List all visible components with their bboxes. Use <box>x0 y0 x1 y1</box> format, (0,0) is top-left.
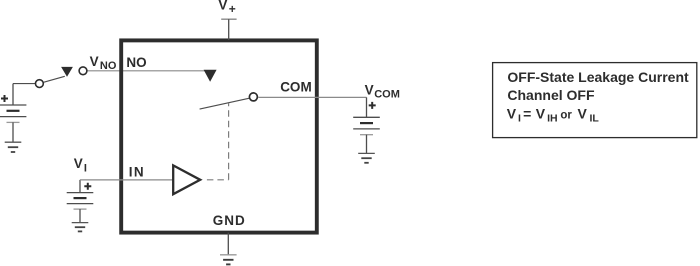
svg-text:COM: COM <box>374 89 400 101</box>
svg-text:V: V <box>365 82 374 97</box>
analog switch COM circle <box>249 93 257 101</box>
svg-text:V: V <box>90 54 99 69</box>
wire: battery B1 positive stem up <box>12 84 14 105</box>
ground: battery B3 <box>72 223 89 232</box>
svg-text:COM: COM <box>280 80 312 95</box>
switch S1 throw circle (node VNO) <box>79 67 87 75</box>
svg-text:NO: NO <box>126 55 146 70</box>
dashed control line vertical <box>228 103 230 180</box>
battery B1 (VNO source) <box>0 95 26 142</box>
buffer driver A1 <box>173 165 200 194</box>
note text line 3 <box>507 105 600 124</box>
dashed control line horizontal <box>207 179 229 181</box>
label VNO <box>90 54 117 72</box>
wire: node VI to IN pin and buffer input <box>80 179 173 181</box>
svg-text:IL: IL <box>590 113 600 125</box>
wire: B1 to switch S1 pole <box>13 83 36 85</box>
svg-text:+: + <box>229 2 236 16</box>
ground: GND pin <box>220 255 237 265</box>
svg-text:V: V <box>74 156 83 171</box>
ground: battery B1 <box>5 142 22 152</box>
svg-text:or: or <box>560 110 572 122</box>
ground: battery B2 <box>358 153 375 162</box>
wire: battery B3 stem up to IN wire <box>79 180 81 192</box>
svg-text:V: V <box>218 0 227 12</box>
svg-text:I: I <box>84 162 87 174</box>
wire: V+ to box top <box>228 19 230 40</box>
svg-text:IH: IH <box>547 113 558 125</box>
label VCOM <box>365 82 400 100</box>
switch S1 lever <box>44 76 65 82</box>
svg-text:V: V <box>578 105 588 121</box>
svg-text:NO: NO <box>100 60 117 72</box>
svg-text:Channel OFF: Channel OFF <box>507 87 595 103</box>
svg-text:GND: GND <box>213 213 246 228</box>
switch S1 arrow contact <box>61 67 73 77</box>
switch S1 pole circle <box>36 80 44 88</box>
svg-text:V: V <box>507 105 517 121</box>
wire: COM pin to node VCOM <box>258 96 366 98</box>
DUT box U1 <box>121 40 317 232</box>
svg-text:I: I <box>518 113 521 125</box>
wire: node VCOM down to battery B2 <box>366 97 368 117</box>
analog switch lever <box>200 98 250 109</box>
wire: GND pin to ground <box>227 233 229 255</box>
svg-text:V: V <box>536 105 546 121</box>
terminal bar V+ <box>221 18 236 20</box>
battery B3 (VI source) <box>67 183 94 223</box>
note box <box>493 63 697 138</box>
label VI <box>74 156 87 174</box>
svg-text:=: = <box>523 105 531 121</box>
battery B2 (VCOM source) <box>353 102 380 153</box>
label V+ <box>218 0 235 16</box>
wire: node VNO to NO pin into box <box>87 70 204 72</box>
NO contact arrow (inside box) <box>204 70 217 82</box>
svg-text:IN: IN <box>129 165 145 180</box>
svg-text:OFF-State Leakage Current: OFF-State Leakage Current <box>507 69 689 85</box>
